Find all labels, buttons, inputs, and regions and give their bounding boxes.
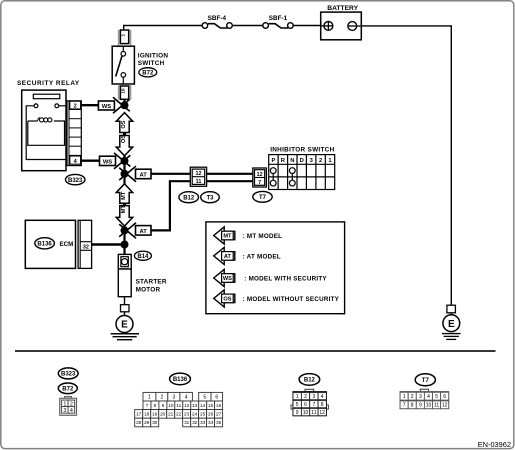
svg-text:2: 2 — [161, 394, 164, 400]
svg-text:T7: T7 — [259, 195, 267, 201]
svg-text:B323: B323 — [61, 372, 76, 378]
svg-text:AT: AT — [140, 229, 148, 235]
svg-text:25: 25 — [200, 411, 206, 416]
svg-text:B12: B12 — [183, 196, 195, 202]
svg-text:5: 5 — [296, 402, 299, 408]
svg-text:STARTER: STARTER — [136, 279, 167, 286]
svg-text:10: 10 — [426, 402, 432, 408]
svg-text:SBF-1: SBF-1 — [269, 15, 288, 22]
svg-text:OS: OS — [121, 135, 127, 143]
svg-text:26: 26 — [208, 411, 214, 416]
svg-text:10: 10 — [303, 410, 309, 416]
svg-text:35: 35 — [216, 420, 222, 425]
svg-text:EN-03962: EN-03962 — [478, 440, 511, 449]
svg-text:INHIBITOR SWITCH: INHIBITOR SWITCH — [270, 147, 334, 154]
svg-text:19: 19 — [152, 411, 158, 416]
svg-text:1: 1 — [403, 394, 406, 400]
svg-text:31: 31 — [184, 420, 190, 425]
svg-text:MT: MT — [121, 191, 127, 200]
svg-text:1: 1 — [148, 394, 151, 400]
svg-text:SECURITY RELAY: SECURITY RELAY — [17, 80, 80, 87]
svg-text:20: 20 — [160, 411, 166, 416]
svg-text:B14: B14 — [137, 254, 149, 260]
svg-text:: MODEL WITH SECURITY: : MODEL WITH SECURITY — [244, 276, 327, 283]
svg-text:7: 7 — [258, 180, 261, 186]
svg-text:23: 23 — [184, 411, 190, 416]
svg-text:P: P — [271, 158, 275, 164]
svg-text:SBF-4: SBF-4 — [208, 15, 227, 22]
svg-text:4: 4 — [321, 394, 324, 400]
svg-text:32: 32 — [83, 244, 89, 250]
svg-text:12: 12 — [257, 172, 263, 178]
svg-text:33: 33 — [200, 420, 206, 425]
svg-text:BATTERY: BATTERY — [327, 5, 358, 12]
svg-text:E: E — [121, 320, 128, 331]
svg-text:MT: MT — [223, 234, 232, 240]
svg-text:22: 22 — [176, 411, 182, 416]
svg-text:12: 12 — [184, 403, 190, 408]
svg-text:34: 34 — [208, 420, 214, 425]
svg-text:1: 1 — [121, 33, 126, 36]
svg-text:6: 6 — [443, 394, 446, 400]
svg-text:15: 15 — [208, 403, 214, 408]
svg-text:: MODEL WITHOUT SECURITY: : MODEL WITHOUT SECURITY — [243, 296, 340, 303]
svg-text:24: 24 — [192, 411, 198, 416]
svg-text:27: 27 — [216, 411, 222, 416]
svg-text:13: 13 — [192, 403, 198, 408]
svg-text:WS: WS — [103, 159, 112, 165]
svg-text:32: 32 — [192, 420, 198, 425]
svg-text:3: 3 — [63, 408, 66, 414]
svg-text:11: 11 — [311, 410, 316, 416]
svg-text:3: 3 — [313, 394, 316, 400]
svg-text:30: 30 — [152, 420, 158, 425]
svg-text:28: 28 — [136, 420, 142, 425]
svg-text:3: 3 — [419, 394, 422, 400]
svg-text:10: 10 — [121, 88, 126, 94]
svg-text:11: 11 — [176, 403, 181, 408]
svg-text:B323: B323 — [68, 178, 83, 184]
svg-text:11: 11 — [196, 179, 202, 185]
svg-text:E: E — [448, 319, 455, 330]
svg-text:12: 12 — [319, 410, 325, 416]
svg-text:4: 4 — [70, 408, 73, 414]
svg-text:OS: OS — [223, 297, 231, 303]
svg-text:2: 2 — [70, 402, 73, 408]
svg-text:WS: WS — [102, 104, 111, 110]
svg-text:AT: AT — [140, 172, 148, 178]
svg-text:N: N — [290, 158, 294, 164]
svg-text:T3: T3 — [206, 196, 214, 202]
svg-text:3: 3 — [173, 394, 176, 400]
svg-text:5: 5 — [203, 394, 206, 400]
svg-text:14: 14 — [200, 403, 206, 408]
svg-text:8: 8 — [154, 403, 157, 408]
svg-text:9: 9 — [419, 402, 422, 408]
svg-text:11: 11 — [434, 402, 439, 408]
svg-text:12: 12 — [442, 402, 448, 408]
svg-text:1: 1 — [296, 394, 299, 400]
svg-text:D: D — [300, 158, 304, 164]
svg-text:4: 4 — [185, 394, 188, 400]
svg-text:1: 1 — [63, 402, 66, 408]
svg-text:: AT MODEL: : AT MODEL — [243, 253, 281, 260]
svg-text:8: 8 — [411, 402, 414, 408]
svg-text:9: 9 — [296, 410, 299, 416]
svg-text:OS: OS — [121, 120, 127, 128]
svg-text:AT: AT — [224, 254, 232, 260]
svg-text:4: 4 — [427, 394, 430, 400]
svg-text:2: 2 — [74, 104, 77, 110]
svg-text:29: 29 — [144, 420, 150, 425]
svg-text:5: 5 — [435, 394, 438, 400]
svg-text:6: 6 — [304, 402, 307, 408]
svg-text:B72: B72 — [142, 71, 154, 77]
svg-text:7: 7 — [403, 402, 406, 408]
svg-text:B12: B12 — [304, 378, 316, 384]
svg-text:6: 6 — [215, 394, 218, 400]
svg-text:WS: WS — [223, 276, 232, 282]
svg-text:IGNITION: IGNITION — [138, 52, 169, 59]
svg-text:17: 17 — [136, 411, 142, 416]
svg-text:B136: B136 — [37, 242, 52, 248]
svg-text:21: 21 — [168, 411, 174, 416]
svg-text:2: 2 — [319, 158, 322, 164]
svg-text:MT: MT — [121, 205, 127, 214]
svg-text:MOTOR: MOTOR — [136, 287, 161, 294]
svg-text:8: 8 — [321, 402, 324, 408]
svg-text:12: 12 — [196, 171, 202, 177]
svg-text:2: 2 — [411, 394, 414, 400]
svg-text:2: 2 — [304, 394, 307, 400]
svg-text:18: 18 — [144, 411, 150, 416]
svg-text:9: 9 — [162, 403, 165, 408]
svg-text:B136: B136 — [173, 377, 188, 383]
svg-text:ECM: ECM — [60, 241, 74, 248]
svg-text:10: 10 — [168, 403, 174, 408]
svg-text:B72: B72 — [62, 387, 74, 393]
svg-text:7: 7 — [146, 403, 149, 408]
svg-text:T7: T7 — [422, 378, 430, 384]
svg-text:SWITCH: SWITCH — [138, 60, 165, 67]
svg-text:7: 7 — [313, 402, 316, 408]
svg-text:: MT MODEL: : MT MODEL — [243, 233, 283, 240]
svg-text:16: 16 — [216, 403, 222, 408]
